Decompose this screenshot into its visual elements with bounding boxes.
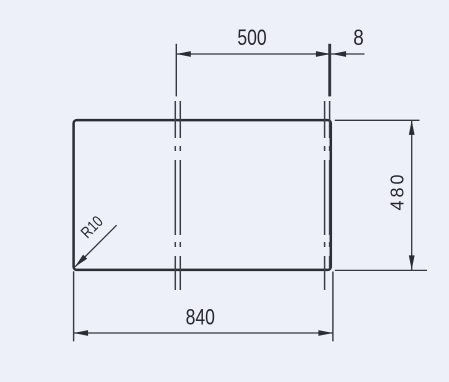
- label 500: [237, 26, 266, 51]
- dimension 840 extension line left: [73, 271, 75, 341]
- dimension 500 extension line left: [175, 44, 177, 97]
- arrowhead R10 (points to bottom-left corner): [75, 255, 87, 267]
- arrowhead 480 bottom: [409, 255, 415, 270]
- dimension 840 extension line right: [332, 272, 334, 342]
- arrowhead 500 left: [176, 51, 191, 57]
- svg-text:840: 840: [186, 305, 215, 330]
- radius leader R10 line: [75, 225, 117, 267]
- arrowhead 480 top: [409, 120, 415, 134]
- label 8: [353, 25, 364, 50]
- arrowhead 840 right: [318, 330, 333, 336]
- arrowhead 840 left: [74, 330, 89, 336]
- dimension 8 tail line right: [331, 53, 365, 55]
- svg-text:8: 8: [353, 25, 364, 50]
- dimension 480 extension line top: [335, 119, 420, 121]
- dimension 500 line: [176, 53, 331, 55]
- centerline pair left (double dash-dot line at 500 position): [175, 101, 180, 290]
- centerline pair right (double dash-dot at rim, next to right edge): [325, 101, 330, 290]
- svg-text:500: 500: [237, 26, 266, 51]
- arrowhead 8 right: [332, 51, 347, 57]
- svg-text:480: 480: [388, 171, 408, 210]
- arrowhead 500 right / 8 left: [316, 51, 331, 57]
- dimension 840 line: [74, 332, 333, 334]
- dimension 480 line: [411, 120, 413, 270]
- label 480 (rotated): [388, 171, 408, 210]
- dimension 500/8 extension line right (thick, doubled): [328, 44, 331, 97]
- sink cutout outline (840x480 rectangle, panel): [74, 120, 331, 270]
- dimension 480 extension line bottom: [335, 269, 427, 271]
- label R10 (rotated 45): [78, 213, 107, 242]
- label 840: [186, 305, 215, 330]
